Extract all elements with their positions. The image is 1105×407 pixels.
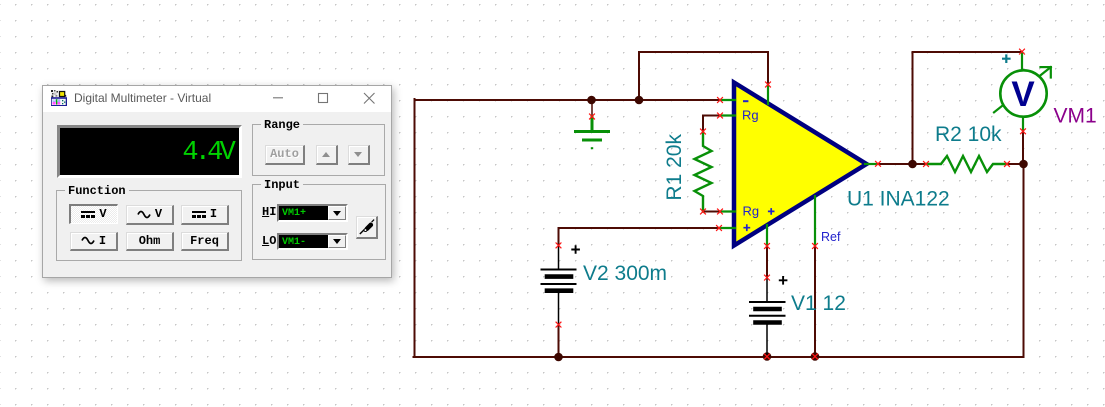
wire Ref to rail	[814, 246, 816, 357]
label HI	[262, 205, 276, 219]
svg-text:V1 12: V1 12	[791, 292, 846, 315]
svg-text:V2 300m: V2 300m	[583, 262, 667, 285]
battery V2	[542, 246, 576, 324]
Ref rail pin marker	[812, 354, 818, 360]
wire V- pin to V1	[766, 246, 768, 277]
V1 pin markers	[764, 275, 770, 360]
label LO	[262, 234, 276, 248]
svg-text:Ref: Ref	[821, 230, 841, 244]
Range group	[252, 124, 385, 176]
Input group	[252, 184, 386, 260]
wire bottom rail	[414, 356, 1024, 358]
R2 pin markers	[923, 161, 1010, 167]
svg-text:R2 10k: R2 10k	[935, 123, 1002, 146]
pin label Ref	[821, 230, 841, 244]
wire R2 to output node	[1007, 163, 1024, 165]
VM1 polarity +	[1002, 54, 1011, 63]
label V1 12	[791, 292, 846, 315]
label U1 INA122	[847, 188, 950, 211]
wire feedback to V+ pin	[639, 52, 768, 100]
wire top input rail	[415, 99, 720, 101]
button DC V (selected)	[69, 204, 118, 224]
pin label - (inverting)	[743, 100, 748, 102]
LCD display	[57, 125, 242, 178]
title bar	[43, 86, 391, 112]
svg-text:Rg: Rg	[743, 204, 760, 219]
ground	[576, 117, 609, 149]
resistor R2	[926, 156, 1007, 172]
svg-text:Rg: Rg	[742, 108, 759, 123]
svg-text:U1 INA122: U1 INA122	[847, 188, 950, 211]
label R1 20k	[663, 134, 686, 201]
R1 pin markers	[700, 129, 706, 215]
button range up (disabled)	[316, 145, 339, 165]
resistor R1	[695, 132, 712, 212]
wire output node up to VM1	[913, 52, 1023, 164]
label R2 10k	[935, 123, 1002, 146]
app icon	[51, 90, 67, 106]
wire R1 to Rg bottom	[703, 211, 720, 213]
Function group	[56, 190, 242, 261]
minimize	[271, 86, 285, 112]
junction node feedback tap	[635, 96, 644, 105]
wire output to R2	[878, 163, 926, 165]
wire V2 bottom to rail	[558, 325, 560, 357]
svg-text:VM1: VM1	[1054, 105, 1097, 128]
V1 polarity +	[779, 276, 788, 285]
junction node V1 on rail	[763, 352, 772, 361]
junction node Ref on rail	[811, 352, 820, 361]
button range down (disabled)	[348, 145, 371, 165]
pin label + (Rg bottom row)	[768, 208, 775, 215]
pin label + (non-inverting)	[743, 224, 750, 231]
maximize	[316, 86, 330, 112]
label VM1	[1054, 105, 1097, 128]
junction node V2 on rail	[554, 353, 563, 362]
junction node output tee	[908, 160, 917, 169]
button Auto (disabled)	[265, 145, 305, 165]
close	[362, 86, 376, 112]
op-amp U1	[716, 82, 881, 249]
button Ohm	[126, 232, 174, 252]
V2 polarity +	[571, 245, 580, 254]
ground pin marker	[589, 114, 595, 120]
wire right output drop	[1023, 164, 1025, 357]
button DC I	[181, 205, 229, 225]
combo LO = VM1-	[277, 233, 348, 250]
probe button	[356, 216, 378, 239]
pin label Rg bottom	[743, 204, 760, 219]
pin label Rg top	[742, 108, 759, 123]
V2 pin markers	[556, 243, 562, 328]
wire left rail	[414, 99, 416, 357]
button Freq	[181, 232, 229, 252]
combo HI = VM1+	[277, 204, 348, 222]
battery V1	[750, 278, 785, 356]
svg-text:R1 20k: R1 20k	[663, 134, 686, 201]
svg-text:V: V	[1011, 75, 1035, 114]
wire ground stub	[591, 100, 593, 116]
button AC I	[70, 232, 118, 252]
junction node output right	[1019, 160, 1028, 169]
junction node at ground	[587, 96, 596, 105]
wire VM1 bottom	[1022, 131, 1024, 163]
label V2 300m	[583, 262, 667, 285]
voltmeter VM1	[994, 49, 1051, 135]
button AC V	[126, 205, 174, 225]
wire V2 to + input	[559, 228, 720, 245]
wire Rg top to R1	[703, 116, 720, 132]
